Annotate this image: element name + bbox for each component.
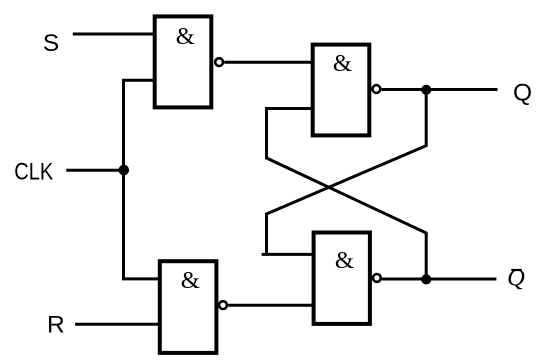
wire CLK vertical bus with branches to G1 pin 2 and G3 pin 1: [124, 80, 160, 279]
wire R input to gate G3 pin 2: [75, 323, 160, 326]
wire G3 output to gate G4 pin 2: [228, 304, 313, 307]
nand gate G3 (bottom-left) body: [160, 261, 217, 353]
wire CLK input to junction node: [66, 169, 124, 172]
junction dot Qbar node: [421, 274, 431, 284]
inversion bubble on G2 output: [373, 85, 381, 93]
wire cross-coupling Qbar node to gate G2 pin 2: [267, 109, 427, 280]
svg-text:S: S: [43, 30, 59, 57]
svg-text:&: &: [181, 267, 200, 294]
svg-text:Q: Q: [513, 80, 532, 107]
inversion bubble on G3 output: [219, 301, 227, 309]
wire S input to gate G1 pin 1: [73, 33, 155, 36]
svg-text:&: &: [333, 50, 352, 77]
inversion bubble on G1 output: [215, 58, 223, 66]
inversion bubble on G4 output: [373, 274, 381, 282]
nand gate G1 (top-left) body: [155, 16, 212, 107]
overline of Qbar label: [511, 269, 522, 271]
wire cross-coupling Q node to gate G4 pin 1: [262, 90, 427, 255]
svg-text:&: &: [335, 247, 354, 274]
svg-text:Q: Q: [507, 265, 525, 292]
svg-text:CLK: CLK: [14, 158, 54, 185]
junction dot Q node: [421, 85, 431, 95]
wire G4 output to Qbar terminal: [382, 278, 497, 281]
nand gate G4 (bottom-right) body: [314, 233, 370, 324]
wire G2 output to Q terminal: [382, 88, 498, 91]
svg-text:R: R: [47, 311, 65, 338]
wire G1 output to gate G2 pin 1: [224, 61, 312, 64]
nand gate G2 (top-right) body: [313, 45, 370, 136]
svg-text:&: &: [176, 23, 195, 50]
junction dot CLK node: [119, 165, 130, 176]
